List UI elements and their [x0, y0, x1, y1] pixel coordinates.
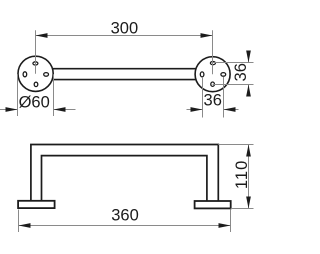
towel bar rail (front view)	[51, 69, 197, 80]
right flange screw hole top	[210, 62, 215, 65]
svg-text:300: 300	[111, 20, 139, 38]
dimension 300 extension line left	[35, 30, 37, 74]
dimension 36 horizontal line right segment	[224, 109, 239, 111]
dimension 36 vertical arrow bottom	[246, 85, 251, 97]
dimension D60 extension line right	[53, 74, 55, 116]
svg-text:110: 110	[233, 160, 251, 189]
dimension 360 arrow left	[19, 223, 31, 228]
dimension D60 line left segment	[0, 109, 18, 111]
dimension 36 vertical line top segment	[248, 51, 250, 63]
dimension 36 vertical extension line top	[213, 62, 254, 64]
towel bar inner contour (top view)	[42, 156, 207, 201]
dimension 36 horizontal line left segment	[187, 109, 203, 111]
right flange screw hole left	[200, 72, 204, 77]
dimension 36 vertical extension line bottom	[213, 84, 254, 86]
dimension 300 arrow right	[201, 33, 213, 38]
dimension D60 extension line left	[17, 74, 19, 116]
svg-text:360: 360	[111, 206, 139, 224]
svg-text:36: 36	[232, 63, 250, 81]
towel bar outer contour (top view)	[31, 145, 218, 202]
dimension D60 arrow left	[6, 107, 18, 112]
dimension 300 line	[36, 35, 213, 37]
dimension 360 extension line right	[230, 210, 232, 233]
right base plate (top view)	[195, 201, 231, 208]
dimension 36 horizontal extension line right	[223, 77, 225, 118]
dimension 36 vertical arrow top	[246, 51, 251, 63]
dimension 110 extension line bottom	[231, 208, 254, 210]
dimension 300 arrow left	[36, 33, 48, 38]
left base plate (top view)	[18, 201, 55, 208]
dimension 110 line	[248, 145, 250, 209]
dimension 36 vertical line bottom segment	[248, 85, 250, 97]
dimension 300 extension line right	[212, 30, 214, 74]
dimension D60 line right segment	[54, 109, 76, 111]
right mounting flange	[195, 57, 230, 92]
dimension 110 arrow bottom	[246, 197, 251, 209]
left flange screw hole bottom	[34, 82, 38, 86]
svg-text:Ø60: Ø60	[19, 93, 50, 111]
dimension 36 horizontal arrow left	[191, 107, 203, 112]
dimension 360 extension line left	[18, 210, 20, 233]
dimension 360 line	[19, 225, 231, 227]
left flange screw hole right	[44, 73, 49, 77]
svg-text:36: 36	[204, 92, 222, 110]
right flange screw hole bottom	[211, 82, 215, 86]
dimension 110 arrow top	[246, 145, 251, 157]
left flange screw hole left	[23, 72, 27, 77]
dimension D60 arrow right	[54, 107, 66, 112]
left mounting flange	[18, 56, 53, 91]
dimension 360 arrow right	[219, 223, 231, 228]
dimension 36 horizontal extension line left	[202, 77, 204, 118]
left flange screw hole top	[33, 62, 38, 65]
right flange screw hole right	[221, 73, 226, 77]
dimension 110 extension line top	[218, 144, 253, 146]
dimension 36 horizontal arrow right	[224, 107, 236, 112]
